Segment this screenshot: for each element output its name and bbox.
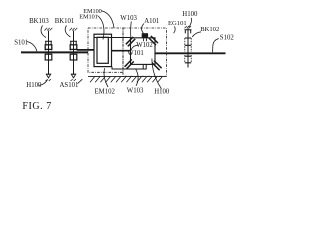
gear mesh slash top-right	[149, 36, 158, 45]
wire shaft S102 right	[155, 52, 226, 54]
svg-text:BK101: BK101	[55, 18, 75, 25]
svg-text:AS101: AS101	[60, 82, 79, 89]
svg-text:W102: W102	[136, 42, 153, 49]
leader W103 bottom	[136, 69, 138, 86]
leader S101	[27, 42, 37, 52]
leader S102	[213, 39, 219, 53]
gear mesh slash top-left	[126, 37, 135, 46]
carrier link under gear box	[112, 64, 146, 69]
leader BK103	[41, 26, 46, 38]
bearing support below BK101 (AS101)	[70, 52, 77, 81]
svg-text:H100: H100	[182, 11, 198, 18]
support element H100 right	[185, 26, 192, 68]
svg-text:S102: S102	[220, 34, 235, 41]
leader EM101	[98, 16, 104, 40]
svg-text:EG101: EG101	[168, 20, 187, 27]
dashed box EM100	[88, 28, 123, 72]
svg-text:W103: W103	[120, 15, 137, 22]
svg-text:FIG. 7: FIG. 7	[22, 101, 51, 112]
leader EM100	[102, 11, 115, 28]
svg-text:H100: H100	[26, 82, 42, 89]
svg-text:BK103: BK103	[29, 18, 49, 25]
wire rotor shaft overlap joint	[77, 49, 94, 51]
leader W103 top	[130, 22, 133, 38]
brake BK103 assembly	[45, 28, 53, 53]
bearing support below BK103 (H100)	[45, 52, 52, 81]
leader H100 bottom-left	[39, 80, 47, 86]
leader BK102	[192, 32, 201, 37]
leader H100 top	[189, 18, 192, 28]
leader EG101	[174, 26, 176, 33]
wire shaft S101 left	[21, 51, 88, 53]
wire top link to gear	[94, 37, 131, 39]
svg-text:A101: A101	[144, 18, 159, 25]
svg-text:EM102: EM102	[95, 89, 116, 96]
leader BK101	[65, 26, 70, 38]
wire rotor-to-gear mid link	[112, 50, 131, 52]
housing hatch band	[88, 76, 166, 82]
leader H100 bottom-right	[152, 59, 162, 89]
leader EM102	[104, 68, 108, 87]
svg-text:S101: S101	[14, 40, 28, 47]
svg-text:H100: H100	[154, 89, 170, 96]
svg-text:W103: W103	[127, 87, 144, 94]
gear mesh slash bottom-left	[125, 59, 134, 68]
coupling square A101	[142, 34, 148, 38]
leader AS101	[78, 79, 83, 83]
electric machine EM rotor inner rect EM101	[97, 37, 108, 63]
leader A101	[142, 24, 144, 34]
gear unit box W101/W102	[131, 38, 156, 65]
svg-text:EM101: EM101	[79, 14, 98, 21]
svg-text:W101: W101	[127, 50, 144, 57]
brake BK101 assembly	[70, 28, 78, 53]
leader W102	[131, 45, 138, 50]
dashed box EG101	[123, 28, 167, 76]
gear mesh slash bottom-right	[152, 61, 162, 71]
svg-text:BK102: BK102	[200, 26, 219, 33]
electric machine EM stator outer rect	[94, 34, 112, 66]
